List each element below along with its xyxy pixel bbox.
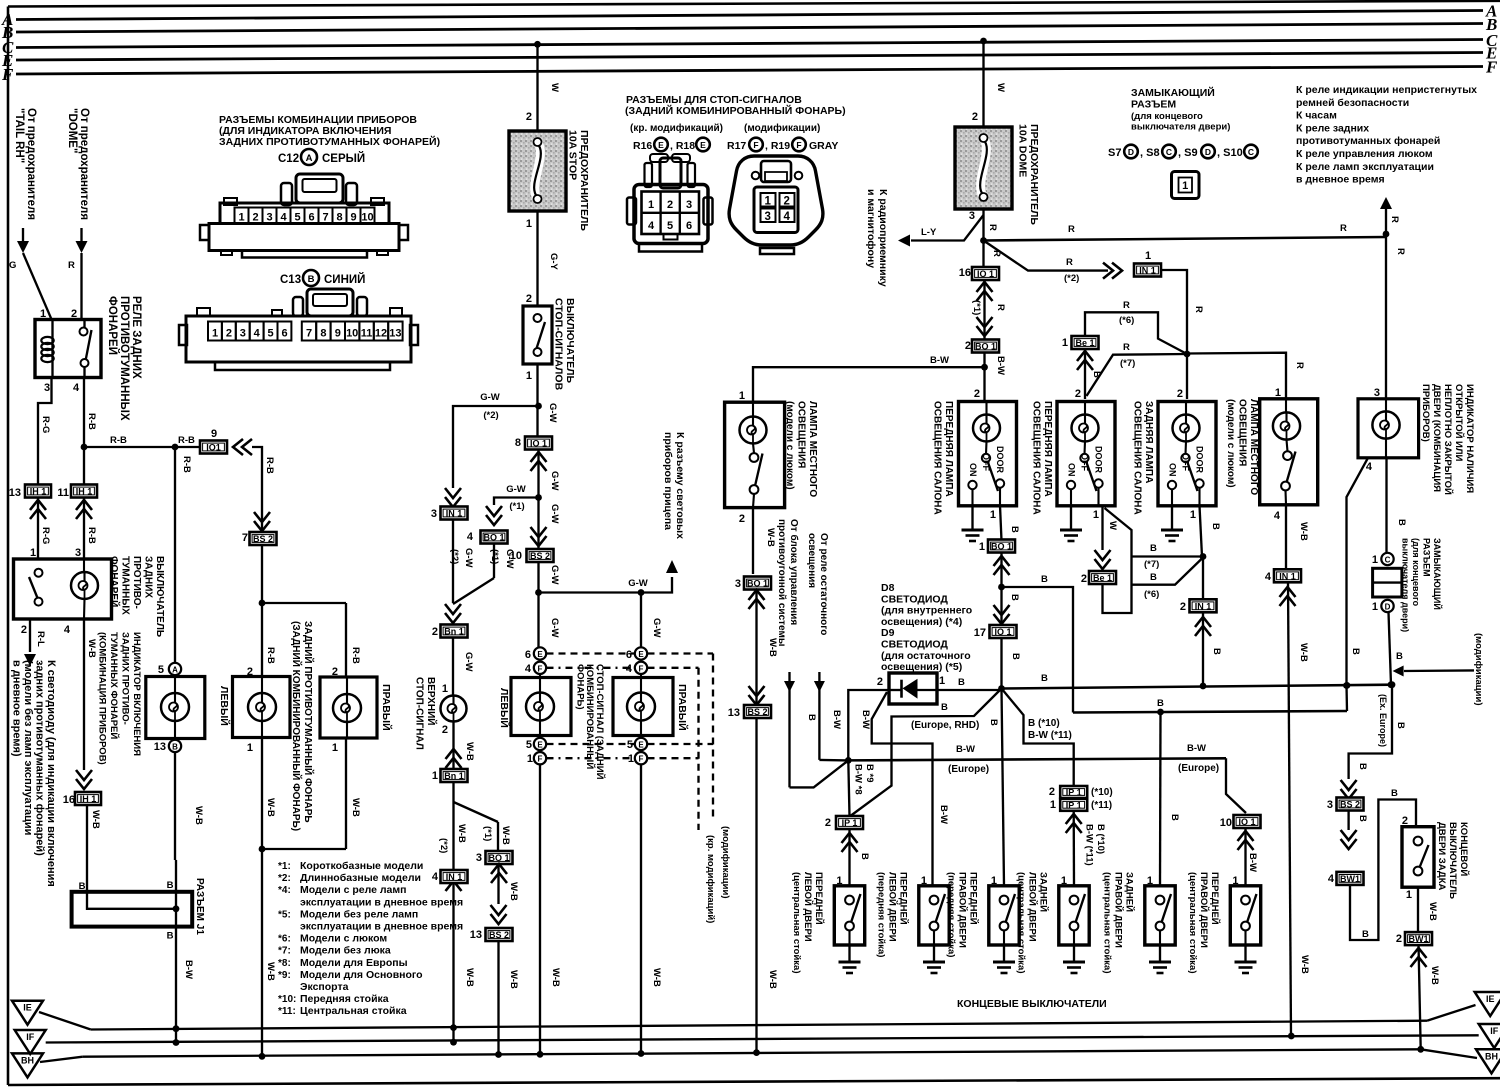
lamp: ИНДИКАТОР ВКЛЮЧЕНИЯ (146, 677, 205, 739)
svg-text:16: 16 (959, 267, 971, 279)
svg-text:C: C (1385, 556, 1391, 565)
svg-text:2: 2 (21, 624, 27, 636)
svg-text:IN 1: IN 1 (446, 509, 463, 519)
node: junction R-B (81, 444, 88, 451)
svg-text:3: 3 (431, 508, 437, 520)
svg-text:R-B: R-B (350, 647, 361, 664)
svg-text:B: B (1010, 653, 1021, 660)
svg-text:7: 7 (322, 212, 328, 224)
svg-text:DOOR: DOOR (1094, 446, 1104, 474)
svg-text:W-B: W-B (1298, 643, 1309, 662)
svg-text:*5:: *5: (278, 909, 291, 920)
svg-text:R: R (1389, 216, 1400, 223)
wire: W-B from B to J1 (174, 752, 176, 860)
svg-text:2: 2 (825, 817, 831, 829)
svg-text:IH 1: IH 1 (76, 487, 93, 497)
svg-text:W-B: W-B (86, 639, 97, 658)
svg-text:10: 10 (1220, 817, 1232, 829)
svg-text:G-W: G-W (651, 618, 662, 638)
wire: B branch right (1002, 587, 1074, 713)
svg-text:F: F (1485, 58, 1498, 77)
wire: right stop lamp G-W (640, 593, 642, 648)
wire: x1392 Ex.Europe branch (1349, 685, 1392, 779)
svg-text:BS 2: BS 2 (489, 930, 509, 940)
svg-text:OFF: OFF (981, 453, 991, 471)
node: junction B (998, 584, 1005, 591)
svg-text:(*2): (*2) (483, 410, 498, 421)
svg-text:B: B (1041, 673, 1048, 684)
wire: S3 feed from main junction (1002, 689, 1005, 886)
svg-text:3: 3 (266, 212, 272, 224)
svg-text:D: D (1385, 603, 1391, 612)
svg-text:17: 17 (974, 627, 986, 639)
svg-text:R: R (1123, 342, 1130, 353)
wire: IF line (46, 1035, 1479, 1042)
svg-text:2: 2 (1075, 388, 1081, 400)
svg-text:BS 2: BS 2 (253, 534, 273, 544)
svg-text:1: 1 (432, 770, 438, 782)
svg-text:B-W: B-W (183, 960, 194, 979)
lamp: ПЕРЕДНЯЯ ЛАМПА ОСВЕЩЕНИЯ САЛОНА 2 (1057, 402, 1115, 506)
svg-text:W-B: W-B (550, 968, 561, 987)
wire: right stop W-B down (640, 764, 642, 1053)
wire: G-W (*2) branch (453, 406, 539, 488)
svg-text:C12: C12 (278, 153, 299, 165)
svg-text:(для концевого: (для концевого (1131, 111, 1203, 122)
svg-text:РАЗЪЕМ J1: РАЗЪЕМ J1 (194, 878, 205, 935)
svg-text:К реле задних: К реле задних (1296, 122, 1369, 134)
svg-text:B: B (1350, 648, 1361, 655)
svg-text:4: 4 (254, 328, 261, 340)
svg-text:7: 7 (242, 532, 248, 544)
wire: R below dome junction (982, 241, 984, 268)
wire: B line (Ex Europe upper) (1073, 711, 1347, 713)
svg-text:, S10: , S10 (1217, 147, 1243, 159)
svg-text:IN 1: IN 1 (1195, 601, 1212, 611)
svg-text:E: E (700, 140, 706, 150)
svg-text:(*1): (*1) (509, 501, 524, 512)
svg-text:Be 1: Be 1 (1075, 338, 1094, 348)
svg-text:1: 1 (739, 390, 745, 402)
svg-text:Модели без реле ламп: Модели без реле ламп (300, 908, 418, 920)
svg-text:4: 4 (280, 212, 287, 224)
wire: bus F (16, 67, 1483, 75)
svg-text:E: E (537, 741, 543, 750)
svg-text:IE: IE (23, 1003, 32, 1013)
diode D9 (889, 673, 937, 704)
lamp: ЛАМПА МЕСТНОГО ОСВЕЩЕНИЯ 1 (725, 402, 785, 507)
svg-text:(кр. модификаций): (кр. модификаций) (630, 122, 723, 134)
svg-text:(Europe): (Europe) (1178, 763, 1219, 774)
wire: BW1 loop to tailgate switch (1350, 800, 1416, 941)
wire: R horizontal to right (984, 237, 1387, 241)
svg-text:(модификации): (модификации) (720, 826, 731, 899)
fuse: ПРЕДОХРАНИТЕЛЬ 10A DOME (955, 127, 1012, 209)
svg-text:ON: ON (968, 463, 978, 477)
svg-text:6: 6 (281, 328, 287, 340)
svg-text:(*2): (*2) (438, 838, 449, 853)
svg-text:1: 1 (765, 196, 772, 208)
svg-text:G-W: G-W (480, 392, 500, 403)
wire: diode lower bypass to front-left door (front pillar) (872, 692, 933, 886)
svg-text:К часам: К часам (1296, 110, 1337, 122)
svg-text:*6:: *6: (278, 934, 291, 945)
svg-text:R: R (1395, 248, 1406, 255)
svg-text:R-B: R-B (86, 413, 97, 430)
svg-text:2: 2 (974, 388, 980, 400)
wire: J1 down to IE/IF (175, 927, 177, 1043)
svg-text:9: 9 (211, 428, 217, 440)
svg-text:R-B: R-B (110, 435, 127, 446)
wire: G-W main (536, 364, 538, 437)
svg-text:Передняя стойка: Передняя стойка (300, 993, 389, 1005)
svg-text:(модификации): (модификации) (1473, 633, 1484, 706)
wire: G-W (*1) branch (535, 494, 542, 501)
lamp: ВЕРХНИЙ СТОП-СИГНАЛ (441, 696, 467, 722)
svg-text:G-W: G-W (506, 484, 526, 495)
svg-text:6: 6 (686, 220, 692, 232)
svg-text:B-W (*11): B-W (*11) (1028, 730, 1072, 741)
svg-text:, S8: , S8 (1140, 147, 1160, 159)
svg-text:1: 1 (526, 370, 532, 382)
svg-text:Модели с люком: Модели с люком (300, 933, 387, 945)
svg-text:(Europe): (Europe) (948, 764, 989, 775)
wire: R to local lamp 2 (1187, 353, 1286, 399)
svg-text:R: R (1294, 362, 1305, 369)
wire: L-Y to radio (911, 215, 984, 241)
svg-text:BO 1: BO 1 (975, 342, 996, 352)
svg-text:IP 1: IP 1 (842, 818, 858, 828)
svg-text:B: B (1211, 648, 1222, 655)
svg-text:СЕРЫЙ: СЕРЫЙ (322, 152, 365, 165)
svg-text:3: 3 (735, 578, 741, 590)
svg-text:Модели без люка: Модели без люка (300, 945, 391, 957)
connector C12 (296, 174, 343, 203)
svg-text:B: B (1009, 594, 1020, 601)
wire: bottom page border (8, 1078, 1500, 1085)
svg-text:8: 8 (515, 437, 521, 449)
wire: R(*7) bypass (1087, 354, 1188, 396)
svg-text:R: R (68, 260, 75, 271)
svg-text:B: B (1150, 543, 1157, 554)
svg-text:1: 1 (979, 541, 985, 553)
svg-text:Be 1: Be 1 (1093, 573, 1112, 583)
wire: Europe line corner to 10 IO1 (1226, 758, 1246, 813)
svg-text:B-W: B-W (938, 805, 949, 824)
svg-text:ЗАМЫКАЮЩИЙ: ЗАМЫКАЮЩИЙ (1131, 86, 1215, 99)
svg-text:R-B: R-B (265, 647, 276, 664)
svg-text:ЗАДНИХ ПРОТИВОТУМАННЫХ ФОНАРЕЙ: ЗАДНИХ ПРОТИВОТУМАННЫХ ФОНАРЕЙ) (219, 135, 440, 148)
wire: split W-B *2 *1 (452, 782, 454, 870)
svg-text:3: 3 (969, 210, 975, 222)
svg-text:F: F (538, 755, 543, 764)
svg-text:G-Y: G-Y (548, 253, 559, 271)
svg-text:4: 4 (525, 663, 532, 675)
svg-text:R: R (987, 224, 998, 231)
svg-text:Bn 1: Bn 1 (444, 627, 464, 637)
svg-text:A: A (306, 153, 313, 164)
svg-text:Модели для Европы: Модели для Европы (300, 957, 408, 969)
wire: S5 feed from Ex-Europe B line (1159, 712, 1162, 886)
svg-text:2: 2 (1049, 786, 1055, 798)
svg-text:(*1): (*1) (489, 549, 500, 564)
svg-text:2: 2 (1396, 933, 1402, 945)
wire: left stop lamp G-W (537, 593, 539, 648)
svg-text:B: B (1396, 519, 1407, 526)
svg-text:(*1): (*1) (482, 826, 493, 841)
svg-text:эксплуатации в дневное время: эксплуатации в дневное время (300, 921, 463, 933)
svg-text:D9: D9 (881, 627, 895, 639)
svg-text:9: 9 (350, 212, 356, 224)
svg-text:C13: C13 (280, 274, 301, 286)
svg-text:1: 1 (648, 199, 654, 211)
svg-text:1: 1 (238, 212, 244, 224)
svg-text:R: R (1193, 306, 1204, 313)
svg-text:BO 1: BO 1 (483, 533, 504, 543)
svg-text:СВЕТОДИОД: СВЕТОДИОД (881, 593, 948, 605)
svg-text:B: B (806, 714, 817, 721)
svg-text:2: 2 (442, 724, 448, 736)
svg-text:B-W: B-W (831, 710, 842, 729)
wire: R-B split to fog lamps (262, 544, 346, 603)
wire: B-W below BO1 (983, 353, 985, 402)
svg-text:R: R (1340, 223, 1347, 234)
svg-text:R16: R16 (633, 140, 652, 152)
svg-text:(для остаточного: (для остаточного (881, 650, 971, 662)
wire: B-W branch to local lamp 1 (753, 367, 985, 402)
svg-text:6: 6 (626, 649, 632, 661)
svg-text:E: E (537, 650, 543, 659)
svg-text:освещения) (*4): освещения) (*4) (881, 616, 962, 628)
svg-text:2: 2 (965, 340, 971, 352)
svg-text:IH 1: IH 1 (80, 794, 97, 804)
wire: G-W to trailer arrow (539, 577, 673, 593)
wire: pin3-side B down to C circle (1385, 458, 1387, 553)
node: junction B (IN1 wire) (1200, 553, 1207, 560)
wire: (Europe, RHD) path (851, 689, 1002, 816)
svg-text:*9:: *9: (278, 970, 291, 981)
svg-text:G-W: G-W (549, 618, 560, 638)
svg-text:G-W: G-W (549, 565, 560, 585)
svg-text:R-B: R-B (181, 456, 192, 473)
svg-text:W-B: W-B (456, 824, 467, 843)
svg-text:R-L: R-L (35, 631, 46, 647)
wire: G-Y (536, 211, 538, 306)
svg-text:ON: ON (1067, 463, 1077, 477)
connector C13 (307, 289, 353, 316)
lamp: ПЕРЕДНЯЯ ЛАМПА ОСВЕЩЕНИЯ САЛОНА 1 (959, 402, 1017, 506)
svg-text:4: 4 (626, 663, 633, 675)
svg-text:IF: IF (1490, 1026, 1499, 1036)
svg-text:B: B (1396, 651, 1403, 662)
wire: to junction (982, 209, 984, 241)
svg-text:IN 1: IN 1 (1279, 571, 1296, 581)
svg-text:в дневное время: в дневное время (1296, 174, 1385, 186)
svg-text:IO 1: IO 1 (994, 627, 1011, 637)
wire: W from bus C (534, 41, 541, 48)
svg-text:ЗАДНИЙ ПРОТИВОТУМАННЫЙ ФОНАРЬ(: ЗАДНИЙ ПРОТИВОТУМАННЫЙ ФОНАРЬ(ЗАДНИЙ КОМ… (290, 621, 315, 831)
svg-text:1: 1 (939, 675, 945, 687)
svg-text:(*2): (*2) (449, 549, 460, 564)
svg-text:ПРАВЫЙ: ПРАВЫЙ (676, 684, 689, 731)
svg-text:GRAY: GRAY (809, 140, 838, 152)
wire: left stop W-B down (539, 764, 541, 1054)
svg-text:, S9: , S9 (1178, 147, 1198, 159)
svg-text:4: 4 (1265, 571, 1272, 583)
svg-text:G-W: G-W (549, 471, 560, 491)
svg-text:W-B: W-B (1298, 522, 1309, 541)
svg-text:ЛЕВЫЙ: ЛЕВЫЙ (498, 688, 511, 728)
svg-text:R-G: R-G (40, 416, 51, 433)
svg-text:W-B: W-B (651, 968, 662, 987)
svg-text:1: 1 (1372, 601, 1378, 613)
wire: W-B pin4 down (83, 619, 85, 770)
wire: dashed F1 row (547, 757, 635, 759)
svg-text:B: B (1395, 722, 1406, 729)
svg-text:BS 2: BS 2 (1340, 800, 1360, 810)
wire: R-B horizontal to IO1 (84, 446, 200, 448)
svg-text:ON: ON (1168, 463, 1178, 477)
svg-text:ВН: ВН (21, 1055, 34, 1065)
svg-text:К реле ламп эксплуатации: К реле ламп эксплуатации (1296, 161, 1434, 173)
svg-text:B: B (167, 931, 174, 942)
svg-text:13: 13 (728, 707, 740, 719)
wire: bus C (16, 40, 1483, 48)
svg-text:B: B (859, 853, 870, 860)
svg-text:1: 1 (212, 328, 218, 340)
svg-text:8: 8 (320, 328, 326, 340)
svg-text:B: B (958, 677, 965, 688)
svg-text:2: 2 (1177, 388, 1183, 400)
svg-text:РАЗЪЕМ: РАЗЪЕМ (1131, 99, 1176, 111)
svg-text:ВН: ВН (1485, 1051, 1498, 1061)
wire: dashed E5 row (547, 743, 635, 745)
svg-text:(*7): (*7) (1120, 358, 1135, 369)
wire: bus A (16, 11, 1483, 20)
node: triangle IF left (15, 1030, 46, 1054)
svg-text:E: E (638, 650, 644, 659)
svg-text:W-B: W-B (1299, 955, 1310, 974)
svg-text:*8:: *8: (278, 958, 291, 969)
svg-text:5: 5 (294, 212, 300, 224)
svg-text:11: 11 (57, 487, 69, 499)
svg-text:B: B (1357, 815, 1368, 822)
svg-text:4: 4 (432, 871, 439, 883)
wire: merge to Bn1 (445, 604, 461, 623)
wire: bus E (16, 53, 1483, 61)
svg-text:W-B: W-B (90, 810, 101, 829)
wire: R arrow up to relay text (1385, 207, 1387, 234)
svg-text:3: 3 (765, 211, 771, 223)
svg-text:Экспорта: Экспорта (300, 981, 349, 993)
svg-text:4: 4 (1328, 873, 1335, 885)
wire: W-B below local lamp 2 (1285, 505, 1287, 570)
wire: BH line (40, 1057, 83, 1062)
svg-text:1: 1 (527, 753, 533, 765)
svg-text:противотуманных фонарей: противотуманных фонарей (1296, 135, 1440, 147)
wire: B from junction through diode (937, 689, 1002, 691)
wire: dashed E6 row (547, 652, 635, 654)
wire: R down from IN1 (1161, 270, 1187, 354)
svg-text:1: 1 (1182, 180, 1188, 192)
svg-text:2: 2 (252, 212, 258, 224)
svg-text:F: F (796, 140, 801, 150)
svg-text:IO 1: IO 1 (977, 269, 994, 279)
svg-text:BO 1: BO 1 (747, 579, 768, 589)
svg-text:IP 1: IP 1 (1066, 800, 1082, 810)
svg-text:4: 4 (784, 211, 791, 223)
svg-text:эксплуатации в дневное время: эксплуатации в дневное время (300, 896, 463, 908)
svg-text:G-W: G-W (628, 578, 648, 589)
node: junction R (1184, 351, 1191, 358)
svg-text:IN 1: IN 1 (1139, 266, 1156, 276)
svg-text:B: B (1150, 572, 1157, 583)
svg-text:B-W: B-W (1247, 853, 1258, 872)
node: triangle BH left (12, 1053, 43, 1077)
svg-text:4: 4 (73, 382, 80, 394)
wire: to 2 IN1 (1202, 557, 1204, 600)
wire: R down to indicator (1385, 234, 1387, 399)
wire: W-B to 2 BW1 (1417, 887, 1419, 933)
ground lamp1 (971, 506, 973, 530)
switch: ВЫКЛЮЧАТЕЛЬ ЗАДНИХ ПРОТИВОТУМАННЫХ ФОНАРЕЙ (14, 559, 112, 619)
svg-text:B: B (1357, 763, 1368, 770)
svg-text:4: 4 (467, 531, 474, 543)
node: triangle BH right (1476, 1049, 1500, 1073)
svg-text:5: 5 (667, 220, 673, 232)
svg-text:*7:: *7: (278, 946, 291, 957)
svg-text:10: 10 (510, 550, 522, 562)
svg-text:*10:: *10: (278, 994, 296, 1005)
svg-text:1: 1 (990, 509, 996, 521)
svg-text:(*10): (*10) (1091, 787, 1113, 798)
wire: R (*2) branch to 1 IN1 (984, 241, 1109, 271)
svg-text:B: B (988, 719, 999, 726)
svg-text:13: 13 (470, 929, 482, 941)
svg-text:BW1: BW1 (1340, 874, 1360, 884)
svg-text:B-W: B-W (860, 710, 871, 729)
svg-text:3: 3 (44, 382, 50, 394)
svg-text:R-B: R-B (178, 435, 195, 446)
svg-text:IO 1: IO 1 (1238, 817, 1255, 827)
svg-text:1: 1 (1093, 509, 1099, 521)
node: triangle IE right (1475, 992, 1500, 1016)
wire: B horizontal right (main B net) (1002, 685, 1393, 689)
svg-text:5: 5 (158, 664, 164, 676)
svg-text:(Ex. Europe): (Ex. Europe) (1378, 694, 1388, 747)
svg-text:(*6): (*6) (1144, 589, 1159, 600)
wire main to BS2 (537, 498, 539, 550)
connector R16/R18 (650, 154, 668, 162)
svg-text:R-G: R-G (40, 527, 51, 544)
svg-text:IO 1: IO 1 (530, 439, 547, 449)
svg-text:W-B: W-B (508, 882, 519, 901)
svg-text:1: 1 (332, 742, 338, 754)
svg-text:8: 8 (336, 212, 342, 224)
svg-text:L-Y: L-Y (921, 227, 937, 238)
svg-text:3: 3 (1327, 799, 1333, 811)
svg-text:2: 2 (667, 199, 673, 211)
svg-text:1: 1 (1062, 337, 1068, 349)
svg-text:IN 1: IN 1 (446, 872, 463, 882)
svg-text:1: 1 (1050, 799, 1056, 811)
svg-text:1: 1 (442, 683, 448, 695)
svg-text:4: 4 (1366, 461, 1373, 473)
svg-text:C: C (1166, 147, 1172, 157)
svg-text:6: 6 (525, 649, 531, 661)
svg-text:DOOR: DOOR (995, 446, 1005, 474)
svg-text:W-B: W-B (1427, 902, 1438, 921)
